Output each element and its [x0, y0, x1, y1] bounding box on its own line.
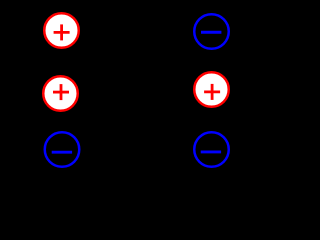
minus sign of q1 (bottom row) — [52, 151, 72, 154]
plus sign of q2 (middle row) — [204, 84, 220, 100]
negative charge q2 (top row, right) — [194, 14, 229, 49]
minus sign of q2 (bottom row) — [201, 150, 221, 153]
plus sign of q1 (middle row) — [53, 84, 69, 100]
positive charge q1 (middle row, left) — [43, 76, 78, 111]
negative charge q1 (bottom row, left) — [45, 132, 80, 167]
positive charge q1 (top row, left) — [44, 13, 79, 48]
negative charge q2 (bottom row, right) — [194, 132, 229, 167]
plus sign of q1 (top row) — [54, 24, 70, 40]
positive charge q2 (middle row, right) — [194, 72, 229, 107]
minus sign of q2 (top row) — [201, 31, 221, 34]
